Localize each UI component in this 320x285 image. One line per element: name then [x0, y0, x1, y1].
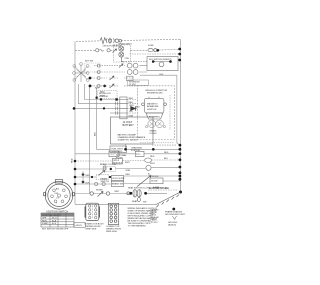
wire left vertical bus — [74, 41, 76, 204]
wire key column 2 — [85, 84, 120, 100]
svg-text:RED: RED — [164, 152, 169, 154]
svg-text:RED: RED — [100, 92, 105, 94]
svg-text:GRN: GRN — [129, 116, 134, 118]
svg-text:RED: RED — [129, 102, 134, 104]
svg-text:KEY SW: KEY SW — [85, 61, 93, 63]
wire bottom chassis run — [75, 203, 156, 205]
interlock note dashed box — [98, 91, 118, 99]
svg-text:BLK: BLK — [95, 88, 100, 90]
svg-text:ENGINE MODEL: ENGINE MODEL — [147, 93, 164, 95]
svg-text:GROUNDING POINT: GROUNDING POINT — [165, 214, 186, 216]
engine inner wire — [169, 95, 171, 130]
svg-text:12 VDC: 12 VDC — [129, 84, 137, 86]
mid-left dots with labels — [82, 173, 85, 183]
svg-text:21W: 21W — [125, 58, 129, 60]
dashed box row 169 — [103, 165, 151, 171]
inline connector row 161 — [145, 158, 152, 162]
svg-text:BRAKE CLUTCH: BRAKE CLUTCH — [100, 163, 117, 166]
misc small labels along wires — [86, 88, 169, 192]
svg-text:WHT: WHT — [129, 98, 134, 100]
wire row into ladder — [74, 107, 120, 109]
svg-text:B+S: B+S — [52, 223, 57, 225]
svg-text:KEY SWITCH SHOWN OFF: KEY SWITCH SHOWN OFF — [42, 229, 69, 231]
key positions box — [85, 63, 101, 72]
chassis ground diagonal — [156, 192, 181, 207]
svg-text:BATTERY: BATTERY — [123, 124, 135, 127]
svg-text:S M: S M — [54, 193, 58, 195]
wire row 145 dashed — [152, 144, 176, 146]
diagonal arrow variation — [137, 176, 151, 187]
svg-text:HEADLIGHTS: HEADLIGHTS — [119, 42, 133, 45]
svg-text:RED: RED — [150, 156, 155, 158]
wire top bus — [76, 39, 181, 41]
svg-text:BLK: BLK — [160, 74, 165, 76]
svg-text:BRAKE SW: BRAKE SW — [112, 182, 123, 185]
ladder dots — [91, 85, 118, 178]
wire row 75 — [140, 74, 177, 76]
svg-text:FUSE: FUSE — [148, 45, 154, 47]
wire vertical 177 — [177, 75, 180, 145]
svg-text:B+A: B+A — [52, 220, 57, 223]
engine bottom ground dashed — [140, 142, 174, 144]
small box row 153 left — [109, 151, 144, 157]
svg-text:RED: RED — [71, 158, 73, 163]
interlock module box — [113, 158, 123, 164]
svg-text:BRIGGS & STRATTON: BRIGGS & STRATTON — [146, 89, 168, 92]
wire battery negative drop — [125, 144, 127, 149]
svg-text:BLK: BLK — [86, 182, 91, 184]
right bus dots bottom — [124, 144, 182, 194]
star dots — [89, 77, 92, 88]
svg-text:CLUTCH SW: CLUTCH SW — [112, 178, 124, 180]
svg-text:ARMATURE: ARMATURE — [147, 105, 159, 108]
svg-text:WHT: WHT — [115, 191, 120, 193]
wire solenoid outputs — [140, 66, 148, 72]
circuit breaker on top bus — [100, 38, 122, 44]
harness ladder connector — [120, 97, 127, 119]
svg-text:+KEYS: +KEYS — [75, 225, 82, 227]
wire headlight return rows — [130, 53, 181, 55]
wire row 177 — [75, 176, 181, 177]
svg-text:3 AMP: 3 AMP — [153, 186, 160, 189]
cluster switch arrow — [99, 171, 105, 176]
connector tick pairs on rows — [116, 98, 118, 115]
svg-text:BLK: BLK — [94, 131, 96, 136]
svg-text:POSITION CIRCUIT: POSITION CIRCUIT — [42, 215, 62, 217]
solenoid contact circles — [127, 63, 139, 81]
svg-text:WHT: WHT — [150, 163, 155, 165]
small box row 179 right — [150, 178, 163, 184]
svg-text:DIODE: DIODE — [151, 180, 158, 182]
ignition unit rounded box — [142, 97, 167, 113]
svg-text:WIRE SIDE: WIRE SIDE — [86, 229, 97, 231]
svg-text:BLK: BLK — [164, 158, 169, 160]
wire seat row — [75, 192, 167, 194]
star row connector circles — [97, 64, 123, 88]
svg-text:35 AMP. HR. RATING: 35 AMP. HR. RATING — [118, 139, 138, 142]
svg-text:PLUGS: PLUGS — [150, 133, 158, 135]
svg-text:B DIODE: B DIODE — [150, 176, 159, 178]
svg-text:FLYWHEEL: FLYWHEEL — [149, 116, 161, 118]
wire row 161 — [75, 160, 181, 161]
dashed box row 177 — [96, 174, 108, 179]
solid boxes rows 177/184 — [111, 176, 123, 187]
svg-text:RED: RED — [86, 175, 91, 177]
grounding point label — [165, 208, 186, 227]
ammeter box right — [147, 57, 178, 71]
svg-text:BLK: BLK — [136, 107, 141, 109]
fuel solenoid box on battery row — [110, 146, 127, 153]
svg-text:L G: L G — [56, 198, 60, 200]
svg-text:NORM: NORM — [96, 190, 103, 192]
right bus dots top — [152, 48, 181, 63]
wire key column 3 — [89, 86, 91, 194]
ignition switch circle — [44, 180, 75, 210]
wire row 190 dashed — [148, 189, 178, 191]
row wire labels — [129, 98, 141, 118]
engine dashed box — [138, 86, 175, 140]
wire ladder to engine rows — [127, 100, 138, 114]
note paragraph — [128, 207, 158, 228]
wire star rows right — [94, 66, 125, 72]
svg-text:WHT: WHT — [125, 162, 130, 164]
headlights dashed box — [114, 45, 131, 62]
svg-text:CONNECTOR BODY: CONNECTOR BODY — [84, 223, 104, 225]
svg-text:WHT: WHT — [100, 96, 105, 98]
svg-text:RED: RED — [126, 174, 131, 176]
wire right vertical bus — [180, 39, 182, 192]
svg-text:OFF: OFF — [42, 218, 47, 220]
ignition switch table — [41, 213, 74, 227]
svg-text:WIRE SIDE: WIRE SIDE — [106, 231, 117, 233]
small text block left of ground label — [151, 210, 160, 225]
svg-text:GRN: GRN — [126, 170, 131, 172]
svg-text:12 VDC: 12 VDC — [151, 222, 159, 224]
spark plug circles — [146, 120, 166, 128]
svg-text:IGNITION: IGNITION — [147, 109, 157, 111]
svg-text:START: START — [42, 222, 49, 225]
fuse — [148, 48, 157, 51]
wire row 113 — [110, 112, 120, 114]
wire second row — [75, 49, 180, 50]
battery box — [111, 117, 154, 144]
diode on row — [131, 106, 136, 110]
left bus junction dots — [73, 107, 77, 185]
svg-text:MAGNETO: MAGNETO — [147, 103, 158, 106]
wire key column 4 — [97, 88, 110, 149]
svg-text:SEAT: SEAT — [132, 200, 138, 203]
svg-text:SEAT SWITCH (CLOSED W/ OPERATO: SEAT SWITCH (CLOSED W/ OPERATOR) — [128, 186, 168, 189]
key switch star — [73, 63, 90, 82]
svg-text:(BLACK): (BLACK) — [168, 224, 177, 227]
wire row 184 — [75, 181, 181, 184]
svg-text:PTO: PTO — [136, 154, 141, 156]
svg-text:GRN: GRN — [129, 105, 134, 107]
svg-text:SW: SW — [143, 202, 146, 204]
wire battery row — [127, 148, 181, 150]
circle on row 184 — [102, 182, 105, 185]
svg-text:M+G: M+G — [52, 218, 57, 220]
svg-text:TO THE HARNESS: TO THE HARNESS — [128, 225, 147, 228]
cluster connector hatches — [104, 164, 107, 172]
wire row 153.8 — [75, 153, 181, 155]
wire key column 1 — [79, 84, 120, 104]
svg-text:SPARK: SPARK — [150, 130, 158, 133]
connector B — [108, 203, 118, 224]
label solenoid — [128, 80, 149, 85]
svg-text:RUN: RUN — [42, 221, 47, 223]
seat switch row components — [90, 190, 141, 202]
flywheel trapezoid — [146, 113, 163, 119]
headlight bulbs — [119, 46, 124, 61]
connector A — [85, 203, 100, 220]
wire row 169 — [75, 167, 181, 169]
light switch symbols on row 2 — [96, 49, 117, 53]
